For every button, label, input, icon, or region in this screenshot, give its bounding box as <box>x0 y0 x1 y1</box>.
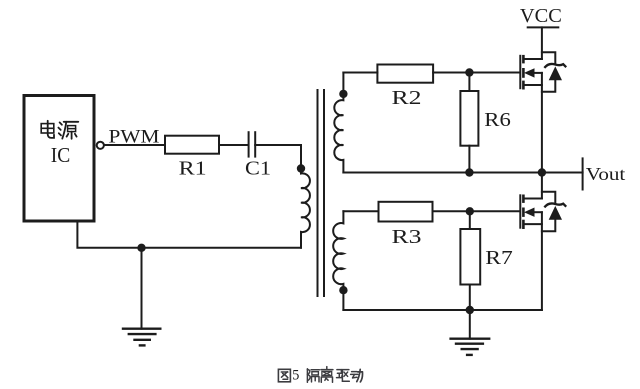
svg-text:R6: R6 <box>484 109 511 131</box>
svg-text:R7: R7 <box>485 247 513 269</box>
svg-text:R2: R2 <box>392 87 422 109</box>
svg-text:Vout: Vout <box>586 164 626 184</box>
svg-text:R3: R3 <box>392 226 422 248</box>
svg-text:C1: C1 <box>245 158 271 180</box>
svg-text:VCC: VCC <box>520 6 562 27</box>
svg-text:IC: IC <box>51 143 71 167</box>
svg-text:5: 5 <box>292 368 299 384</box>
svg-text:R1: R1 <box>179 158 207 180</box>
svg-text:PWM: PWM <box>109 127 160 148</box>
